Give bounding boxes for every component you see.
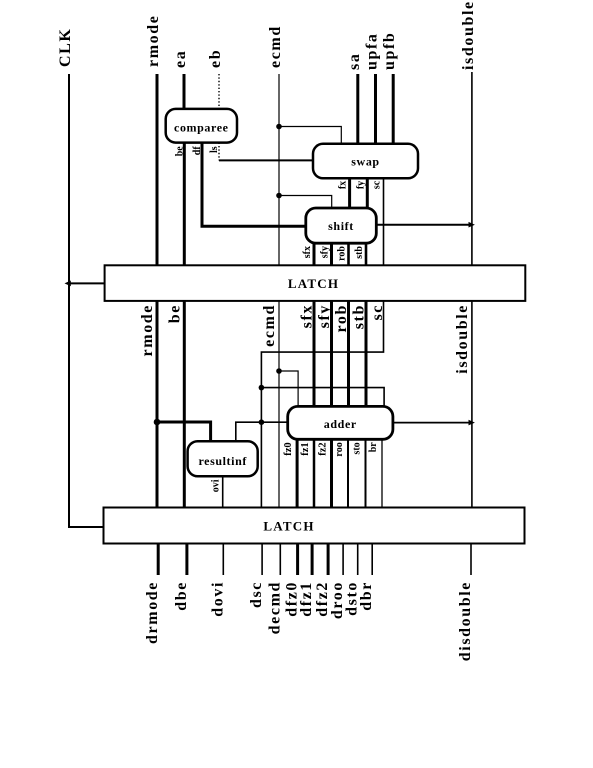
junction sc-resultinf — [259, 419, 265, 425]
wire rmode mid — [156, 300, 159, 508]
svg-text:dbe: dbe — [173, 581, 190, 611]
block adder U5 — [288, 406, 393, 439]
wire fz2 — [330, 439, 333, 507]
wire disdouble stub — [470, 544, 472, 576]
block comparee U1 — [166, 109, 237, 143]
wire df — [202, 143, 306, 227]
wire sc to resultinf and adder left — [236, 422, 288, 441]
wire sfx shift — [313, 243, 316, 265]
svg-text:dbr: dbr — [358, 581, 375, 611]
block shift U3 — [306, 208, 377, 243]
wire CLK to LATCH1 — [69, 282, 105, 284]
wire rmode to resultinf — [157, 422, 211, 441]
wire fz1 — [313, 439, 316, 507]
svg-text:fz1: fz1 — [300, 442, 311, 455]
svg-text:comparee: comparee — [174, 121, 229, 135]
svg-text:ecmd: ecmd — [261, 304, 278, 347]
svg-text:eb: eb — [207, 49, 224, 68]
svg-text:rmode: rmode — [139, 304, 156, 356]
svg-text:stb: stb — [354, 246, 365, 259]
wire sc from swap — [383, 178, 385, 265]
junction ecmd-shift — [276, 193, 282, 199]
svg-text:roo: roo — [334, 442, 345, 456]
svg-text:disdouble: disdouble — [457, 581, 474, 661]
wire dfz0 stub — [296, 544, 299, 576]
svg-text:upfb: upfb — [381, 32, 398, 70]
svg-text:br: br — [368, 442, 379, 453]
block swap U2 — [313, 144, 418, 179]
svg-text:isdouble: isdouble — [454, 304, 471, 374]
wire dsto stub — [357, 544, 359, 576]
svg-text:ea: ea — [172, 50, 189, 68]
svg-text:sto: sto — [352, 442, 363, 454]
wire fz0 — [296, 439, 299, 507]
wire sfy mid — [330, 300, 333, 406]
wire decmd stub — [279, 544, 281, 576]
wire isdouble top — [471, 72, 473, 266]
svg-text:upfa: upfa — [364, 32, 381, 70]
wire eb dotted — [218, 74, 220, 109]
svg-text:CLK: CLK — [57, 28, 74, 67]
wire shift out right — [376, 224, 472, 226]
wire stb shift — [365, 243, 368, 265]
svg-text:decmd: decmd — [266, 581, 283, 634]
svg-text:fz0: fz0 — [283, 442, 294, 455]
wire dfz2 stub — [327, 544, 330, 576]
wire rob mid — [347, 300, 350, 406]
wire ecmd to shift — [279, 196, 332, 209]
latch U4 LATCH1 — [105, 265, 526, 301]
svg-text:fy: fy — [355, 181, 366, 189]
wire br — [381, 439, 383, 507]
wire rob shift — [347, 243, 350, 265]
wire be mid — [183, 300, 186, 508]
wire isdouble mid — [471, 300, 473, 508]
wire ecmd to swap — [279, 127, 341, 144]
arrowhead CLK junction — [65, 281, 71, 287]
wire dbr stub — [371, 544, 373, 576]
wire ecmd to adder — [279, 371, 298, 406]
wire roo — [347, 439, 349, 507]
svg-text:drmode: drmode — [144, 581, 161, 644]
wire stb mid — [365, 300, 368, 406]
svg-text:shift: shift — [328, 219, 354, 233]
wire sfy shift — [330, 243, 333, 265]
block resultinf U6 — [188, 441, 258, 476]
wire sc branch to adder — [261, 388, 384, 407]
svg-text:ecmd: ecmd — [267, 25, 284, 68]
wire ecmd mid — [278, 300, 280, 508]
wire droo stub — [342, 544, 344, 576]
svg-text:sfx: sfx — [302, 246, 313, 258]
wire adder out right — [393, 422, 472, 424]
wire ovi — [222, 476, 224, 507]
svg-text:sc: sc — [371, 180, 382, 189]
svg-text:rmode: rmode — [145, 15, 162, 67]
wire dfz1 stub — [311, 544, 314, 576]
wire upfb — [392, 74, 395, 144]
wire CLK — [69, 74, 104, 527]
wire ecmd top — [278, 74, 280, 266]
wire dovi stub — [222, 544, 224, 576]
wire ls to swap — [219, 159, 313, 161]
svg-text:rob: rob — [337, 246, 348, 261]
wire dsc stub — [261, 544, 263, 576]
wire fx — [348, 178, 351, 208]
svg-text:adder: adder — [324, 417, 357, 431]
wire drmode stub — [157, 544, 160, 576]
svg-text:ovi: ovi — [211, 479, 222, 492]
wire sc mid routed to latch2 — [261, 300, 383, 508]
wire dbe stub — [185, 544, 188, 576]
svg-text:fz2: fz2 — [318, 442, 329, 455]
wire rmode top — [156, 74, 159, 266]
svg-text:resultinf: resultinf — [198, 454, 247, 468]
arrowhead shift out — [469, 222, 475, 228]
svg-text:LATCH: LATCH — [263, 519, 314, 534]
wire upfa — [374, 74, 377, 144]
svg-text:LATCH: LATCH — [288, 276, 339, 291]
wire ls stub dotted — [218, 143, 220, 161]
junction sc branch — [259, 385, 265, 391]
wire ea — [183, 74, 186, 109]
svg-text:sa: sa — [346, 53, 363, 70]
svg-text:dovi: dovi — [209, 581, 226, 617]
svg-text:isdouble: isdouble — [460, 0, 477, 70]
junction ecmd-adder — [276, 368, 282, 374]
wire sfx mid — [313, 300, 316, 406]
svg-text:sfy: sfy — [320, 246, 331, 258]
svg-text:dsc: dsc — [248, 581, 265, 608]
wire sa — [356, 74, 359, 144]
wire be — [183, 143, 186, 266]
svg-text:fx: fx — [338, 181, 349, 189]
svg-text:dfz1: dfz1 — [298, 581, 315, 617]
wire sto — [365, 439, 367, 507]
wire fy — [366, 178, 369, 208]
junction ecmd-swap — [276, 124, 282, 130]
svg-text:swap: swap — [351, 155, 379, 169]
latch U7 LATCH2 — [104, 508, 525, 544]
junction rmode-resultinf — [154, 419, 161, 426]
svg-text:be: be — [166, 304, 183, 323]
arrowhead adder out — [469, 420, 475, 426]
